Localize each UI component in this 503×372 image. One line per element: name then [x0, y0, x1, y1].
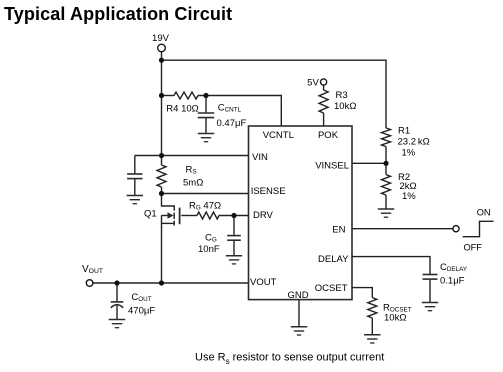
svg-text:0.47μF: 0.47μF	[217, 118, 247, 129]
svg-text:R4 10Ω: R4 10Ω	[166, 103, 198, 114]
svg-text:0.1μF: 0.1μF	[440, 276, 465, 287]
svg-text:5V: 5V	[307, 78, 319, 89]
svg-text:Typical Application Circuit: Typical Application Circuit	[4, 4, 232, 24]
svg-text:VCNTL: VCNTL	[263, 130, 294, 141]
svg-text:ISENSE: ISENSE	[251, 186, 286, 197]
svg-text:DRV: DRV	[253, 210, 274, 221]
svg-text:POK: POK	[318, 130, 339, 141]
svg-text:10nF: 10nF	[198, 244, 220, 255]
svg-text:10kΩ: 10kΩ	[384, 313, 406, 324]
svg-text:VIN: VIN	[252, 152, 268, 163]
svg-text:DELAY: DELAY	[318, 254, 349, 265]
svg-text:VOUT: VOUT	[250, 277, 277, 288]
svg-text:VINSEL: VINSEL	[315, 161, 349, 172]
svg-text:19V: 19V	[152, 33, 170, 44]
svg-text:OCSET: OCSET	[315, 283, 348, 294]
svg-text:470μF: 470μF	[128, 306, 155, 317]
svg-text:EN: EN	[332, 225, 345, 236]
svg-text:ON: ON	[477, 208, 491, 218]
svg-text:R1: R1	[398, 126, 410, 137]
svg-text:RG 47Ω: RG 47Ω	[189, 201, 221, 212]
svg-text:Q1: Q1	[144, 208, 157, 219]
svg-text:OFF: OFF	[464, 243, 483, 253]
svg-text:10kΩ: 10kΩ	[334, 101, 356, 112]
svg-text:GND: GND	[287, 290, 308, 301]
svg-text:R3: R3	[336, 90, 348, 101]
svg-text:1%: 1%	[402, 148, 416, 159]
svg-text:23.2 kΩ: 23.2 kΩ	[398, 137, 430, 148]
svg-text:1%: 1%	[402, 191, 416, 202]
svg-text:5mΩ: 5mΩ	[183, 178, 203, 189]
